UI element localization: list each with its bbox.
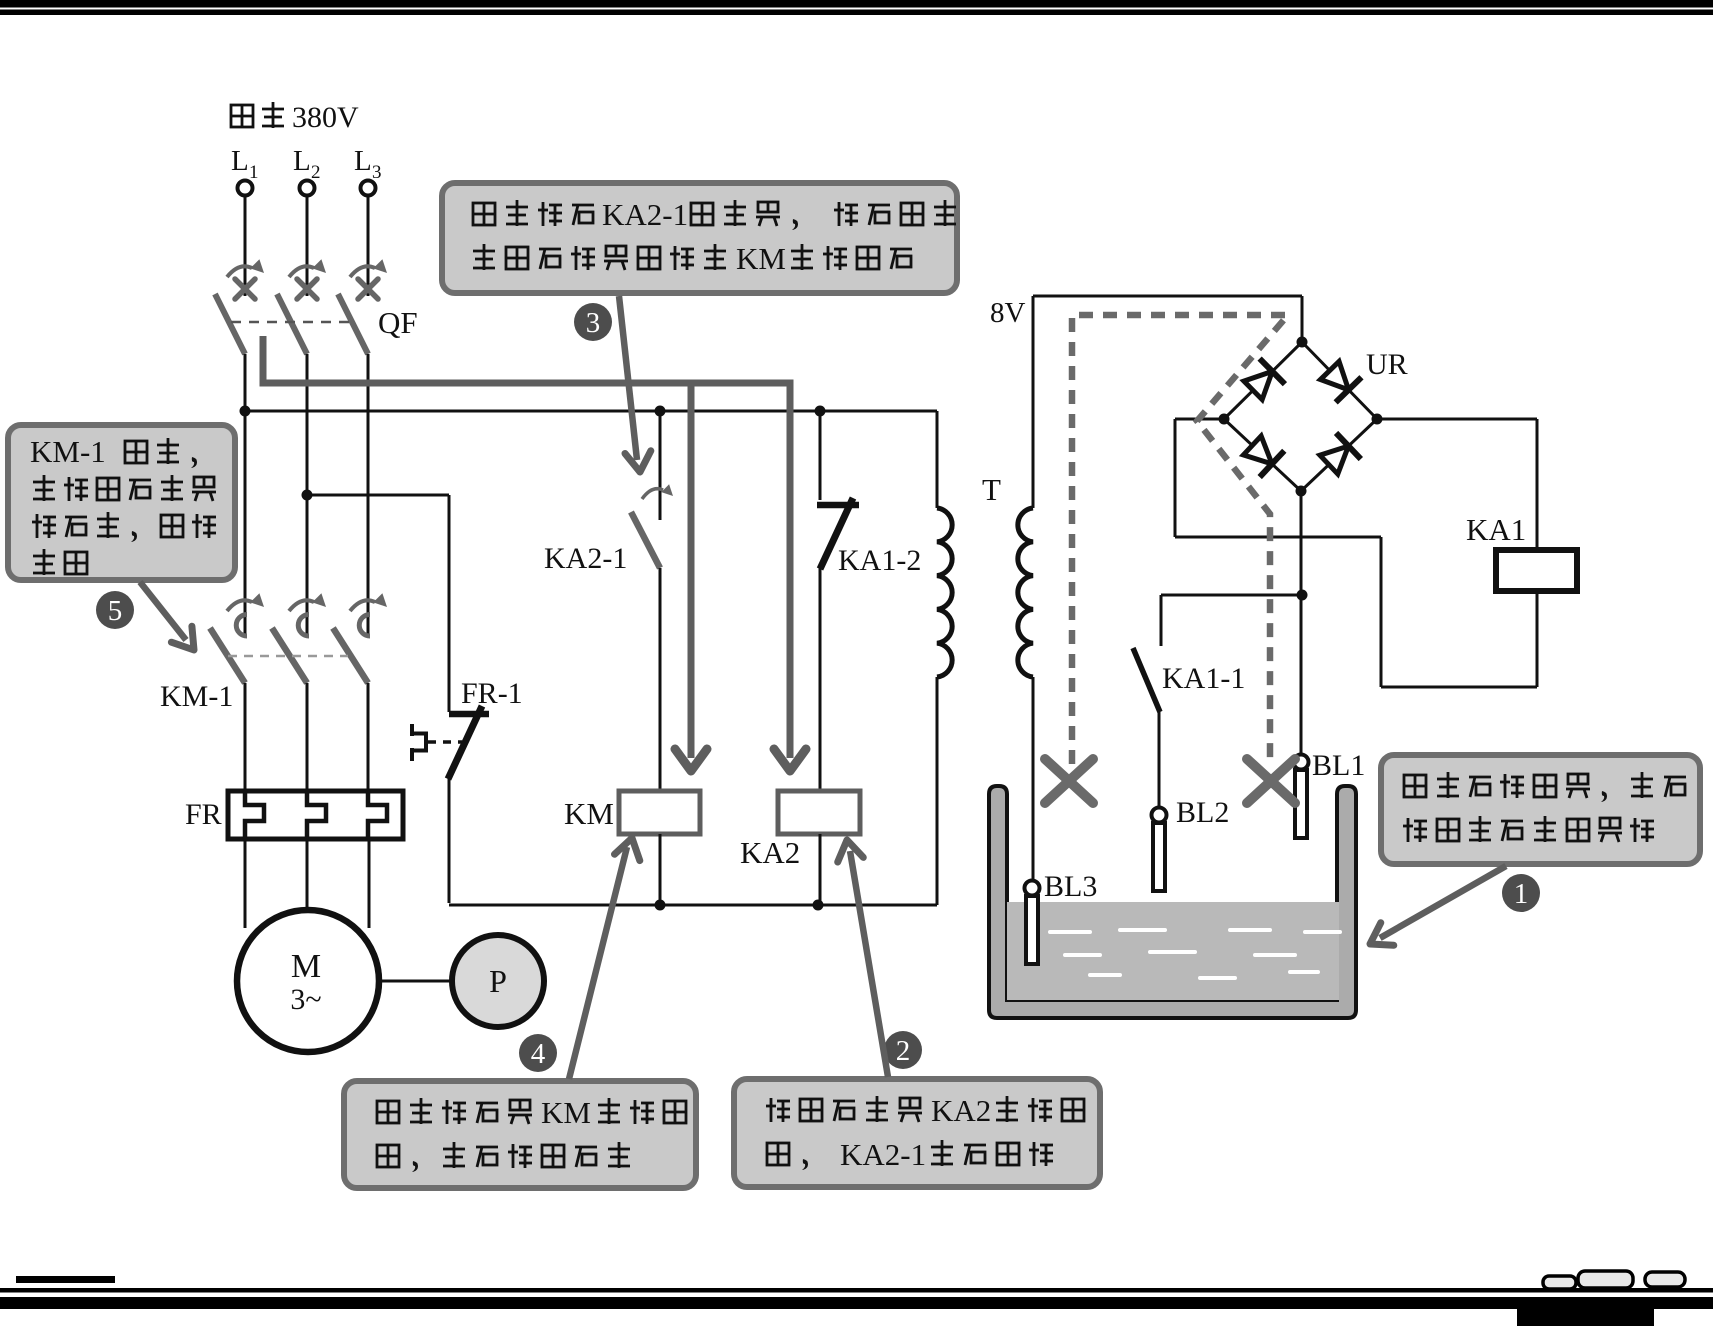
svg-text:380V: 380V bbox=[292, 101, 359, 134]
svg-text:KA2: KA2 bbox=[931, 1093, 991, 1128]
svg-text:8V: 8V bbox=[990, 297, 1026, 329]
svg-text:QF: QF bbox=[378, 305, 418, 340]
svg-text:L: L bbox=[293, 145, 311, 177]
svg-text:3: 3 bbox=[586, 307, 601, 339]
svg-text:L: L bbox=[354, 145, 372, 177]
svg-text:2: 2 bbox=[311, 162, 321, 183]
svg-text:KA2‑1: KA2‑1 bbox=[840, 1137, 926, 1172]
svg-text:KA1‑1: KA1‑1 bbox=[1162, 662, 1245, 695]
svg-text:1: 1 bbox=[249, 162, 259, 183]
svg-text:KM‑1: KM‑1 bbox=[160, 680, 233, 713]
svg-text:T: T bbox=[982, 472, 1001, 507]
svg-text:FR‑1: FR‑1 bbox=[461, 677, 523, 710]
svg-text:KM: KM bbox=[736, 241, 786, 276]
svg-text:KA2: KA2 bbox=[740, 835, 800, 870]
svg-text:KA1‑2: KA1‑2 bbox=[838, 544, 921, 577]
svg-text:1: 1 bbox=[1514, 878, 1529, 910]
svg-text:KA2‑1: KA2‑1 bbox=[544, 542, 627, 575]
svg-text:FR: FR bbox=[185, 798, 222, 831]
svg-text:M: M bbox=[291, 948, 321, 985]
svg-text:BL1: BL1 bbox=[1312, 749, 1365, 782]
svg-text:3~: 3~ bbox=[290, 983, 321, 1016]
svg-text:P: P bbox=[489, 963, 507, 999]
svg-text:KM: KM bbox=[541, 1095, 591, 1130]
svg-text:3: 3 bbox=[372, 162, 382, 183]
svg-text:4: 4 bbox=[531, 1038, 546, 1070]
svg-text:UR: UR bbox=[1366, 348, 1408, 381]
svg-text:KM: KM bbox=[564, 796, 614, 831]
svg-text:KM‑1: KM‑1 bbox=[30, 434, 106, 469]
svg-text:BL2: BL2 bbox=[1176, 796, 1229, 829]
svg-text:KA2‑1: KA2‑1 bbox=[602, 197, 688, 232]
svg-text:L: L bbox=[231, 145, 249, 177]
svg-text:KA1: KA1 bbox=[1466, 512, 1526, 547]
svg-text:BL3: BL3 bbox=[1044, 870, 1097, 903]
svg-text:2: 2 bbox=[896, 1035, 911, 1067]
svg-text:5: 5 bbox=[108, 595, 123, 627]
